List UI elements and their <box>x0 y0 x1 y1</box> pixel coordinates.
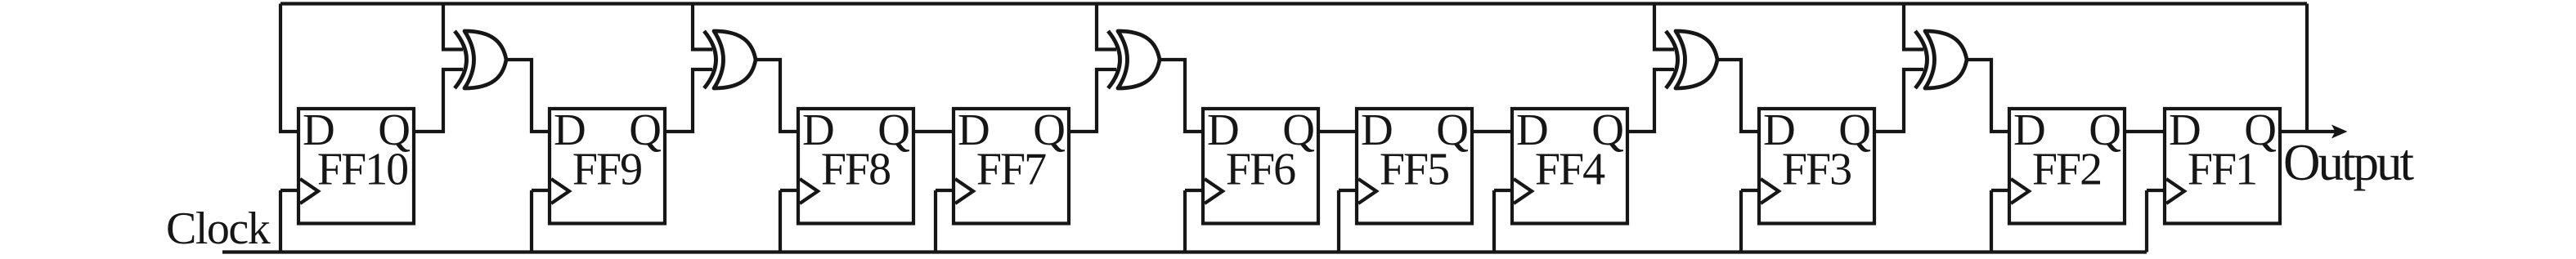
svg-text:FF1: FF1 <box>2188 145 2256 195</box>
svg-text:FF10: FF10 <box>317 145 407 195</box>
svg-text:FF7: FF7 <box>976 145 1046 195</box>
svg-text:FF4: FF4 <box>1535 145 1605 195</box>
svg-text:Output: Output <box>2283 134 2415 191</box>
svg-text:FF5: FF5 <box>1380 145 1448 195</box>
svg-text:Clock: Clock <box>166 203 271 254</box>
svg-text:FF3: FF3 <box>1782 145 1851 195</box>
svg-text:FF2: FF2 <box>2032 145 2101 195</box>
svg-text:FF8: FF8 <box>821 145 890 195</box>
svg-text:FF6: FF6 <box>1226 145 1295 195</box>
svg-text:FF9: FF9 <box>572 145 641 195</box>
